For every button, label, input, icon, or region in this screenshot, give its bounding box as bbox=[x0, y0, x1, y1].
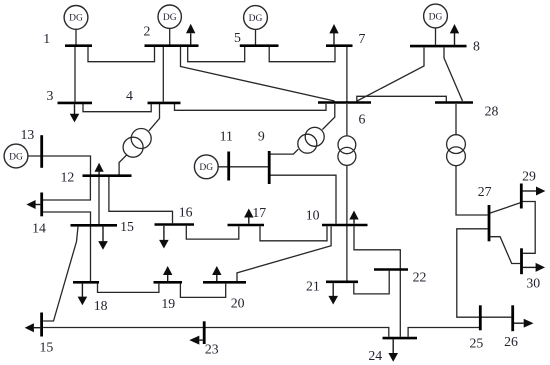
svg-text:22: 22 bbox=[413, 270, 427, 285]
svg-text:DG: DG bbox=[163, 13, 177, 23]
svg-text:DG: DG bbox=[429, 12, 443, 22]
svg-text:26: 26 bbox=[504, 334, 518, 349]
svg-text:7: 7 bbox=[359, 31, 366, 46]
svg-text:25: 25 bbox=[470, 335, 484, 350]
svg-text:20: 20 bbox=[231, 296, 245, 311]
svg-text:27: 27 bbox=[478, 184, 492, 199]
svg-text:30: 30 bbox=[526, 276, 540, 291]
svg-text:21: 21 bbox=[306, 279, 320, 294]
svg-text:14: 14 bbox=[32, 221, 46, 236]
svg-text:13: 13 bbox=[21, 127, 35, 142]
svg-text:3: 3 bbox=[47, 88, 54, 103]
svg-text:10: 10 bbox=[306, 208, 320, 223]
svg-text:6: 6 bbox=[359, 112, 366, 127]
svg-text:DG: DG bbox=[199, 163, 213, 173]
svg-text:DG: DG bbox=[9, 152, 23, 162]
svg-text:24: 24 bbox=[368, 348, 382, 363]
svg-text:19: 19 bbox=[161, 296, 175, 311]
svg-text:15: 15 bbox=[120, 219, 134, 234]
svg-text:DG: DG bbox=[69, 14, 83, 24]
svg-text:2: 2 bbox=[143, 24, 150, 39]
svg-text:17: 17 bbox=[252, 205, 266, 220]
svg-text:15: 15 bbox=[40, 340, 54, 355]
svg-text:11: 11 bbox=[220, 128, 233, 143]
svg-text:28: 28 bbox=[485, 103, 499, 118]
svg-text:DG: DG bbox=[249, 14, 263, 24]
svg-text:4: 4 bbox=[126, 88, 133, 103]
svg-text:1: 1 bbox=[43, 31, 50, 46]
svg-text:5: 5 bbox=[234, 30, 241, 45]
svg-text:16: 16 bbox=[179, 204, 193, 219]
svg-text:18: 18 bbox=[94, 298, 108, 313]
svg-text:9: 9 bbox=[258, 128, 265, 143]
svg-text:8: 8 bbox=[473, 39, 480, 54]
svg-text:23: 23 bbox=[205, 342, 219, 357]
svg-text:29: 29 bbox=[522, 169, 536, 184]
svg-text:12: 12 bbox=[61, 170, 75, 185]
